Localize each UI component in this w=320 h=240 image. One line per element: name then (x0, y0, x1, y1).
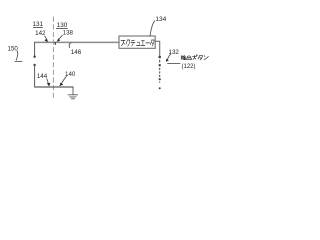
svg-text:138: 138 (63, 29, 74, 36)
svg-text:134: 134 (155, 16, 166, 23)
svg-text:144: 144 (37, 73, 48, 80)
leader for 134 (150, 21, 155, 36)
leader for 140 (62, 76, 67, 83)
svg-text:150: 150 (8, 45, 19, 52)
leader for 146 (69, 43, 71, 48)
wire actuator to node 132 (155, 41, 160, 56)
svg-text:(122): (122) (181, 64, 195, 70)
leader for 144 (47, 79, 49, 84)
label 130 underline (56, 28, 67, 30)
svg-text:140: 140 (65, 71, 76, 78)
wire left vertical upper (34, 42, 36, 56)
boundary dashed line between units 131 and 130 (52, 17, 54, 99)
node 132 terminal dot (158, 56, 161, 59)
text actuator (katakana) in box (121, 40, 154, 46)
svg-text:146: 146 (71, 49, 82, 56)
leader for 138 (59, 35, 63, 39)
wire bottom horizontal (35, 86, 73, 88)
leader for 142 (45, 36, 47, 40)
wire top horizontal (node 142/138 to actuator) (35, 41, 119, 43)
wire left vertical lower (34, 66, 36, 88)
svg-text:132: 132 (169, 49, 180, 56)
switch 150 upper terminal (33, 56, 35, 58)
svg-text:142: 142 (35, 30, 46, 37)
ground (68, 95, 78, 99)
dotted line below node 132 (159, 60, 161, 89)
switch 150 lower terminal (33, 64, 35, 66)
leader for 150 (16, 51, 17, 60)
leader for 132 (167, 54, 170, 60)
leader for label kensyutsu botan (168, 63, 180, 65)
wire drop to ground (72, 87, 74, 95)
actuator box U134 (119, 36, 155, 48)
label 131 underline (33, 26, 43, 28)
node junction on top wire (55, 42, 56, 45)
text detection button (kanji+katakana) (181, 55, 208, 60)
